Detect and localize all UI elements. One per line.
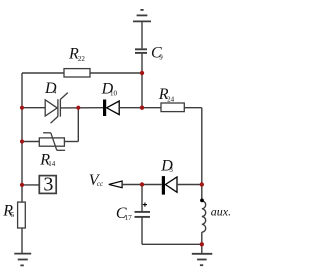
svg-text:9: 9 bbox=[159, 53, 163, 61]
svg-text:aux.: aux. bbox=[211, 205, 231, 219]
svg-text:4: 4 bbox=[53, 88, 57, 96]
svg-text:10: 10 bbox=[110, 89, 118, 97]
svg-text:3: 3 bbox=[169, 166, 173, 174]
svg-text:22: 22 bbox=[78, 55, 86, 63]
svg-text:24: 24 bbox=[167, 96, 175, 104]
svg-text:17: 17 bbox=[125, 214, 133, 222]
svg-text:5: 5 bbox=[11, 211, 15, 219]
svg-text:3: 3 bbox=[43, 174, 53, 196]
svg-text:14: 14 bbox=[48, 160, 56, 168]
svg-text:cc: cc bbox=[97, 180, 104, 188]
